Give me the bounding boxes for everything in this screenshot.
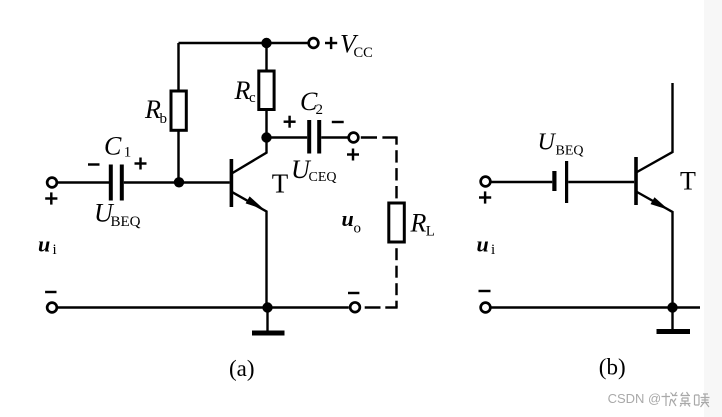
svg-text:R: R: [410, 208, 427, 237]
emitter arrow (b): [651, 197, 669, 210]
svg-text:1: 1: [124, 145, 132, 161]
wire input to battery (b): [490, 181, 552, 183]
battery UBEQ long plate: [565, 161, 568, 203]
terminal bottom-left (b): [481, 303, 491, 313]
watermark CJK glyph 2: [680, 392, 691, 407]
svg-text:u: u: [342, 206, 354, 231]
svg-text:o: o: [354, 221, 362, 237]
label minus right of C2: [332, 121, 344, 123]
svg-text:T: T: [272, 168, 289, 198]
wire C1 to transistor base: [124, 181, 230, 183]
wire Rb bottom to base node: [177, 131, 179, 183]
svg-text:(a): (a): [229, 356, 255, 381]
resistor RL: [389, 203, 405, 242]
svg-text:R: R: [234, 76, 251, 105]
svg-text:b: b: [160, 111, 168, 127]
capacitor C2: [309, 120, 319, 154]
svg-text:2: 2: [316, 102, 324, 118]
svg-text:C: C: [104, 131, 122, 160]
svg-text:(b): (b): [599, 354, 626, 379]
node base junction dot: [174, 177, 184, 187]
wire collector node to C2: [267, 136, 308, 138]
label uo output voltage: [342, 206, 362, 237]
wire Rc top: [265, 43, 267, 71]
label Vcc: [340, 30, 373, 61]
label minus above bottom-right terminal: [348, 292, 359, 294]
watermark CJK glyph 1: [662, 392, 678, 406]
label RL: [410, 208, 435, 239]
svg-text:BEQ: BEQ: [556, 144, 584, 159]
label C2: [300, 87, 323, 118]
wire top rail from Rb top to Vcc terminal: [179, 42, 309, 44]
label UBEQ: [94, 199, 141, 231]
emitter arrow: [246, 196, 265, 209]
label plus left of C2: [284, 116, 296, 128]
node emitter-ground junction dot: [262, 302, 272, 312]
label minus left of C1: [88, 163, 100, 165]
wire input to C1: [57, 181, 109, 183]
transistor T base bar (b): [634, 157, 638, 205]
label UCEQ: [291, 155, 337, 185]
transistor T base bar: [230, 159, 234, 207]
label plus below input terminal (b): [479, 191, 491, 203]
svg-text:u: u: [477, 232, 489, 257]
ground (b): [657, 308, 691, 332]
label ui (b): [477, 232, 496, 259]
wire dashed from RL bottom to bottom terminal: [365, 248, 398, 307]
wire transistor emitter: [233, 192, 267, 307]
svg-text:i: i: [53, 242, 57, 258]
ground (a): [252, 308, 285, 334]
svg-text:L: L: [426, 223, 435, 239]
svg-text:i: i: [491, 242, 495, 258]
terminal input (b): [481, 177, 491, 187]
wire bottom rail (b): [490, 306, 700, 308]
svg-text:CEQ: CEQ: [309, 170, 337, 185]
wire bottom rail (a): [57, 306, 349, 308]
svg-text:CC: CC: [354, 45, 373, 61]
label plus below output terminal: [347, 149, 359, 161]
terminal input left: [47, 178, 57, 188]
svg-text:u: u: [38, 232, 50, 257]
label ui input voltage: [38, 232, 57, 259]
wire dashed from output terminal to RL top: [361, 136, 397, 198]
wire transistor collector: [233, 138, 267, 174]
label +Vcc plus sign: [325, 37, 337, 49]
label C1: [104, 131, 131, 160]
resistor Rb: [171, 91, 186, 130]
terminal output top: [349, 133, 359, 143]
svg-text:U: U: [538, 130, 557, 156]
terminal +Vcc: [309, 38, 319, 48]
label UBEQ (b): [538, 130, 584, 159]
wire battery to base (b): [568, 181, 634, 183]
svg-text:T: T: [680, 167, 696, 196]
label minus above bottom-left terminal: [45, 291, 56, 293]
terminal bottom-right: [350, 302, 360, 312]
wire Rb top: [177, 43, 179, 91]
wire Rc bottom to collector node: [265, 110, 267, 138]
watermark CJK glyph 3: [695, 394, 710, 407]
faint right edge band: [704, 0, 722, 417]
battery UBEQ short plate: [552, 171, 556, 191]
resistor Rc: [259, 71, 274, 110]
label minus above bottom-left terminal (b): [479, 290, 491, 292]
wire transistor emitter (b): [637, 192, 673, 308]
label plus below input terminal: [45, 192, 57, 204]
label plus right of C1: [135, 158, 147, 170]
svg-text:R: R: [144, 95, 161, 124]
svg-text:CSDN @: CSDN @: [608, 391, 662, 406]
node emitter-ground junction dot (b): [667, 302, 677, 312]
label Rb: [144, 95, 167, 127]
terminal bottom-left: [47, 303, 57, 313]
wire C2 to output terminal: [321, 136, 349, 138]
svg-text:c: c: [249, 90, 256, 106]
node collector junction dot: [261, 132, 271, 142]
svg-text:BEQ: BEQ: [111, 214, 141, 230]
wire transistor collector (b): [637, 83, 673, 172]
label Rc: [234, 76, 257, 106]
capacitor C1: [111, 165, 122, 201]
node top junction dot: [261, 38, 271, 48]
